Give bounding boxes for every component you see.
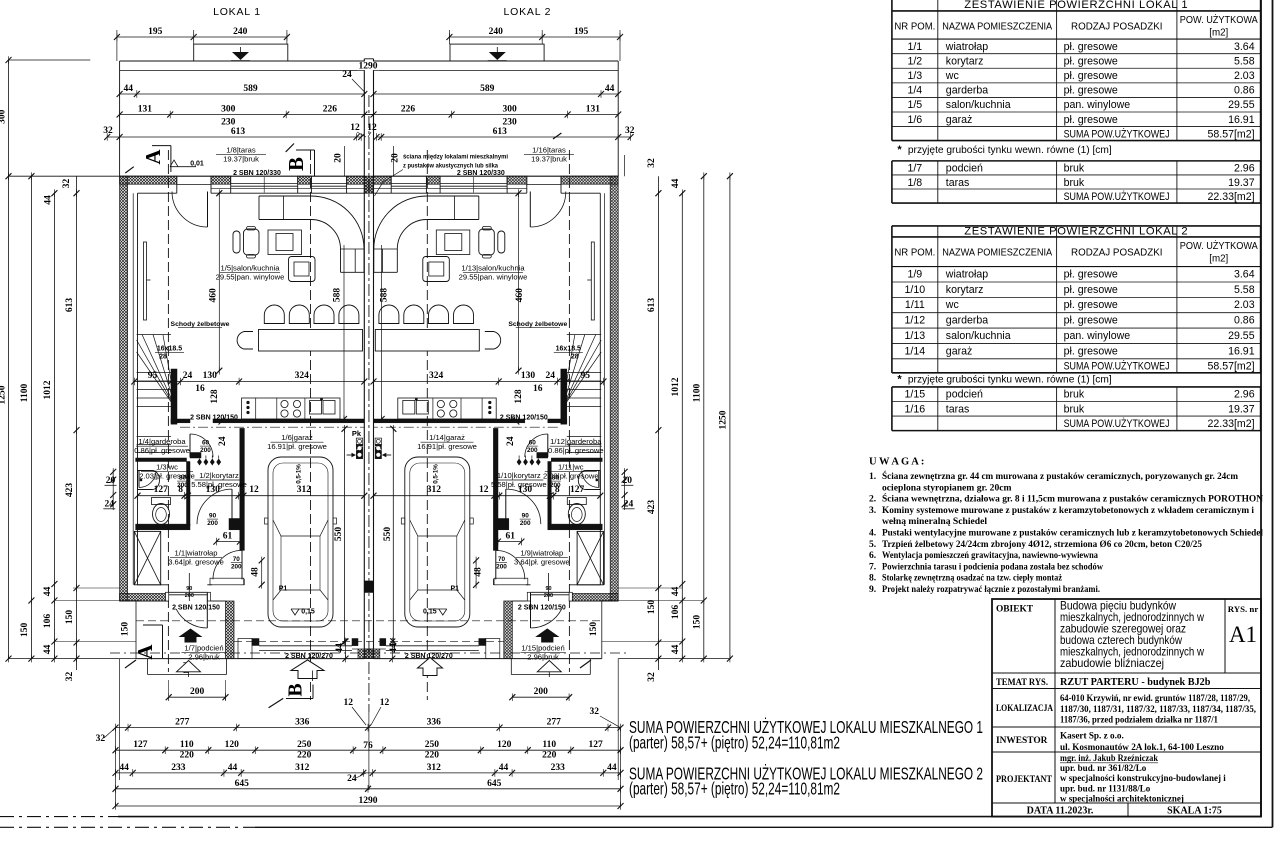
svg-text:2 SBN 120/150: 2 SBN 120/150 [500, 414, 548, 421]
svg-text:44: 44 [123, 84, 133, 94]
svg-text:24: 24 [342, 70, 352, 80]
interior wall under kitchen (salon/garage divider) [171, 419, 190, 423]
svg-text:SUMA POW.UŻYTKOWEJ: SUMA POW.UŻYTKOWEJ [1064, 417, 1170, 430]
svg-text:150: 150 [120, 622, 130, 637]
svg-text:32: 32 [647, 672, 657, 682]
party wall [363, 59, 365, 659]
top exterior wall hatch segments [120, 176, 177, 184]
svg-text:B: B [285, 683, 307, 696]
level flag 0,01 [170, 160, 178, 167]
svg-text:1/14: 1/14 [905, 345, 926, 357]
svg-text:312: 312 [297, 485, 312, 495]
svg-text:19.37: 19.37 [1228, 403, 1255, 415]
hollow arrow unit2 garage [418, 658, 443, 676]
svg-text:220: 220 [542, 751, 557, 761]
svg-text:korytarz: korytarz [946, 55, 984, 67]
svg-text:2.96|bruk: 2.96|bruk [527, 653, 559, 662]
svg-text:pan. winylowe: pan. winylowe [1064, 330, 1131, 342]
hollow entry arrow below left porch [177, 661, 201, 672]
svg-text:8.: 8. [869, 573, 876, 584]
svg-text:zabudowie bliźniaczej: zabudowie bliźniaczej [1060, 657, 1164, 670]
svg-text:120: 120 [497, 740, 512, 750]
svg-text:1/15: 1/15 [905, 389, 926, 401]
toilet [152, 498, 171, 505]
svg-text:LOKALIZACJA: LOKALIZACJA [996, 704, 1053, 714]
svg-text:wiatrołap: wiatrołap [945, 41, 989, 53]
svg-text:1/15|podcień: 1/15|podcień [521, 644, 564, 653]
svg-text:1/4|garderoba: 1/4|garderoba [138, 437, 186, 446]
svg-text:613: 613 [65, 298, 75, 313]
svg-text:220: 220 [297, 751, 312, 761]
svg-text:pł. gresowe: pł. gresowe [1064, 315, 1118, 327]
interior dimension chains [134, 381, 364, 383]
svg-text:131: 131 [138, 105, 153, 115]
svg-text:1/1|wiatrołap: 1/1|wiatrołap [175, 549, 218, 558]
svg-text:bruk: bruk [1064, 389, 1085, 401]
svg-text:130: 130 [518, 485, 533, 495]
bottom chain 44/233/44/312 [116, 772, 621, 774]
svg-text:230: 230 [502, 118, 517, 128]
svg-text:2.96|bruk: 2.96|bruk [188, 653, 220, 662]
svg-text:28: 28 [159, 354, 167, 361]
svg-text:RODZAJ POSADZKI: RODZAJ POSADZKI [1071, 247, 1162, 258]
svg-text:613: 613 [493, 127, 508, 137]
svg-text:pł. gresowe: pł. gresowe [1064, 41, 1118, 53]
svg-text:29.55: 29.55 [1228, 330, 1255, 342]
svg-text:wc: wc [945, 299, 960, 311]
svg-text:460: 460 [209, 288, 219, 303]
svg-text:1/11: 1/11 [905, 299, 925, 311]
svg-text:salon/kuchnia: salon/kuchnia [946, 99, 1011, 111]
svg-text:64-010 Krzywiń, nr ewid. grunt: 64-010 Krzywiń, nr ewid. gruntów 1187/28… [1060, 693, 1250, 703]
svg-text:korytarz: korytarz [946, 284, 984, 296]
garage front wall [238, 639, 252, 659]
svg-text:1187/30, 1187/31, 1187/32, 118: 1187/30, 1187/31, 1187/32, 1187/33, 1187… [1060, 704, 1256, 714]
svg-text:pł. gresowe: pł. gresowe [1064, 114, 1118, 126]
svg-text:80: 80 [552, 475, 560, 482]
svg-text:44: 44 [605, 84, 615, 94]
svg-text:32: 32 [625, 126, 635, 136]
coffee table [268, 230, 302, 255]
svg-text:16: 16 [195, 384, 205, 394]
svg-text:4.: 4. [869, 528, 876, 539]
top chain 195/240 [117, 36, 287, 38]
floor plan: lokal 2 graphics (mirror of lokal 1) [364, 44, 618, 712]
svg-text:pł. gresowe: pł. gresowe [1064, 70, 1118, 82]
small connector lines bottom left [54, 600, 140, 602]
porch step outline right [589, 659, 591, 675]
svg-text:0,5-1%: 0,5-1% [432, 464, 439, 484]
svg-text:bruk: bruk [1064, 163, 1085, 175]
svg-text:277: 277 [547, 718, 562, 728]
svg-text:Pk: Pk [352, 429, 362, 438]
svg-text:32: 32 [65, 672, 75, 682]
svg-text:240: 240 [233, 27, 248, 37]
svg-text:324: 324 [295, 371, 310, 381]
svg-text:58.57[m2]: 58.57[m2] [1207, 128, 1254, 140]
party wall axis (dash-dot) [368, 95, 370, 712]
partition wc / wiatrołap [136, 524, 190, 530]
svg-text:z pustaków akustycznych lub si: z pustaków akustycznych lub silka [403, 163, 498, 170]
svg-text:250: 250 [425, 740, 440, 750]
svg-text:P1: P1 [279, 586, 288, 593]
svg-text:2 SBN 120/330: 2 SBN 120/330 [233, 170, 281, 177]
svg-text:44: 44 [499, 763, 509, 773]
PK chimney blocks on party wall [356, 438, 362, 444]
svg-text:106: 106 [43, 614, 53, 629]
hollow entry arrow below right porch [537, 661, 561, 672]
svg-text:588: 588 [380, 288, 390, 303]
svg-text:2.03: 2.03 [1234, 70, 1255, 82]
svg-text:24: 24 [506, 436, 516, 446]
svg-text:80: 80 [179, 475, 187, 482]
svg-text:RZUT PARTERU - budynek BJ2b: RZUT PARTERU - budynek BJ2b [1060, 677, 1211, 688]
partition garderoba/wc [136, 458, 187, 462]
svg-text:240: 240 [489, 27, 504, 37]
svg-text:12: 12 [343, 698, 353, 708]
kitchen sink [310, 401, 322, 415]
svg-text:200: 200 [231, 563, 242, 570]
svg-text:1/2|korytarz: 1/2|korytarz [199, 471, 239, 480]
vent arrow [347, 454, 352, 456]
svg-text:29.55|pan. winylowe: 29.55|pan. winylowe [216, 273, 285, 282]
left chain 613/423/150/32 [76, 176, 78, 670]
svg-text:NAZWA POMIESZCZENIA: NAZWA POMIESZCZENIA [942, 247, 1052, 258]
svg-text:podcień: podcień [946, 389, 983, 401]
svg-text:1/6|garaż: 1/6|garaż [281, 433, 313, 442]
roof dormer / chimney box over terrace [194, 44, 288, 61]
svg-text:NAZWA POMIESZCZENIA: NAZWA POMIESZCZENIA [942, 21, 1052, 32]
svg-text:0,15: 0,15 [423, 609, 437, 616]
wc door [139, 471, 156, 488]
section mark B bottom (hollow arrow) [291, 660, 324, 679]
black block on party wall at garage rear [365, 581, 374, 592]
svg-text:127: 127 [154, 485, 169, 495]
svg-text:200: 200 [200, 447, 211, 454]
svg-text:garaż: garaż [946, 114, 973, 126]
svg-text:220: 220 [180, 751, 195, 761]
svg-text:pan. winylowe: pan. winylowe [1064, 99, 1131, 111]
svg-text:106: 106 [671, 605, 681, 620]
garage door sill [259, 645, 352, 647]
svg-text:A: A [141, 149, 165, 165]
svg-text:61: 61 [506, 532, 516, 542]
svg-text:2 SBN 120/150: 2 SBN 120/150 [172, 605, 220, 612]
svg-text:salon/kuchnia: salon/kuchnia [946, 330, 1011, 342]
partition korytarz / wiatrołap corner [229, 519, 240, 530]
under-stair void (X box) [134, 531, 160, 584]
sheet outer frame right border [1272, 0, 1274, 827]
svg-text:16: 16 [533, 384, 543, 394]
svg-text:1/5|salon/kuchnia: 1/5|salon/kuchnia [221, 264, 281, 273]
svg-text:1/6: 1/6 [907, 114, 922, 126]
svg-text:0.86: 0.86 [1234, 85, 1255, 97]
svg-text:60: 60 [529, 440, 537, 447]
right chain 1100/150 [703, 176, 705, 658]
svg-text:460: 460 [515, 288, 525, 303]
top chain 32/613/12 [107, 136, 361, 138]
svg-text:PROJEKTANT: PROJEKTANT [996, 775, 1053, 785]
terrace outline above unit [120, 60, 365, 62]
svg-text:5.58: 5.58 [1234, 55, 1255, 67]
connector lines bottom right [600, 600, 704, 602]
svg-text:24: 24 [546, 371, 556, 381]
svg-text:200: 200 [527, 447, 538, 454]
svg-text:3.64|pł. gresowe: 3.64|pł. gresowe [514, 558, 570, 567]
svg-text:przyjęte grubości tynku wew: przyjęte grubości tynku wewn. równe (1) … [908, 145, 1112, 156]
svg-text:2.96: 2.96 [1234, 163, 1255, 175]
bottom chain 645/645 [116, 788, 621, 790]
svg-text:28: 28 [571, 354, 579, 361]
svg-text:NR POM.: NR POM. [894, 247, 935, 258]
svg-text:550: 550 [334, 527, 344, 542]
svg-text:200: 200 [177, 482, 188, 489]
svg-text:12: 12 [367, 123, 377, 133]
left chain 1012/44/106/44 [53, 193, 55, 658]
svg-text:613: 613 [231, 127, 246, 137]
interior dimension chains [374, 381, 604, 383]
svg-text:70: 70 [498, 556, 506, 563]
svg-text:16.91: 16.91 [1228, 345, 1255, 357]
svg-text:2.96: 2.96 [1234, 389, 1255, 401]
svg-text:220: 220 [425, 751, 440, 761]
svg-text:90: 90 [209, 513, 217, 520]
svg-text:SUMA POW.UŻYTKOWEJ: SUMA POW.UŻYTKOWEJ [1064, 127, 1170, 140]
svg-text:ul. Kosmonautów 2A lok.1, 64-1: ul. Kosmonautów 2A lok.1, 64-100 Leszno [1060, 742, 1224, 752]
svg-text:300: 300 [221, 105, 236, 115]
svg-text:Kominy systemowe murowane z pu: Kominy systemowe murowane z pustaków z k… [882, 505, 1254, 516]
svg-text:Powierzchnia tarasu i podcieni: Powierzchnia tarasu i podcienia podana z… [882, 561, 1103, 572]
dashed driveway lines at garages [136, 620, 602, 622]
dining end chair [237, 332, 253, 350]
svg-text:Ściana zewnętrzna gr. 44 cm mu: Ściana zewnętrzna gr. 44 cm murowana z p… [882, 470, 1238, 482]
svg-text:LOKAL 1: LOKAL 1 [213, 6, 261, 18]
sheet inner frame right border [1260, 0, 1262, 817]
wiatrołap-garage door [213, 550, 242, 579]
south edge extension to right chain [618, 658, 731, 660]
svg-text:0,15: 0,15 [301, 609, 315, 616]
svg-text:*: * [897, 373, 902, 385]
svg-text:2 SBN 120/150: 2 SBN 120/150 [518, 605, 566, 612]
svg-text:150: 150 [589, 622, 599, 637]
svg-text:127: 127 [133, 740, 148, 750]
svg-text:1/13: 1/13 [905, 330, 926, 342]
svg-text:5.58: 5.58 [1234, 284, 1255, 296]
svg-text:Kasert Sp. z o.o.: Kasert Sp. z o.o. [1060, 731, 1124, 741]
property / frame bottom line 2 [0, 826, 255, 828]
entrance arrow right porch [535, 629, 559, 643]
svg-text:1/1: 1/1 [907, 41, 922, 53]
svg-text:20: 20 [106, 476, 116, 486]
svg-text:200: 200 [534, 687, 549, 697]
entrance arrow (podcień) [179, 629, 203, 643]
svg-text:233: 233 [171, 763, 186, 773]
top wall inner face [138, 192, 177, 194]
svg-text:bruk: bruk [1064, 177, 1085, 189]
svg-text:22.33[m2]: 22.33[m2] [1207, 191, 1254, 203]
svg-text:1/8: 1/8 [907, 177, 922, 189]
svg-text:95: 95 [581, 371, 591, 381]
svg-text:Trzpień żelbetowy 24/24cm zbro: Trzpień żelbetowy 24/24cm zbrojony 4Ø12,… [882, 539, 1202, 550]
svg-text:2 SBN 120/330: 2 SBN 120/330 [457, 170, 505, 177]
svg-text:1/2: 1/2 [907, 55, 922, 67]
svg-text:226: 226 [323, 105, 338, 115]
svg-text:16.91|pł. gresowe: 16.91|pł. gresowe [267, 442, 327, 451]
svg-text:wiatrołap: wiatrołap [945, 268, 989, 280]
svg-text:3.64|pł. gresowe: 3.64|pł. gresowe [168, 558, 224, 567]
TV on left wall [144, 242, 147, 320]
svg-text:2.03|pł. gresowe: 2.03|pł. gresowe [139, 472, 195, 481]
garderoba door [190, 434, 213, 457]
svg-text:2 SBN 120/270: 2 SBN 120/270 [285, 653, 333, 660]
entry door arc into porch [176, 609, 207, 628]
svg-text:195: 195 [574, 27, 589, 37]
svg-text:32: 32 [62, 179, 72, 189]
right chain 1250 [729, 176, 731, 658]
svg-text:NR POM.: NR POM. [894, 21, 935, 32]
svg-text:120: 120 [225, 740, 240, 750]
svg-text:312: 312 [427, 485, 442, 495]
svg-text:645: 645 [235, 779, 250, 789]
terrace entry door to salon [172, 192, 208, 228]
extension verticals bottom [115, 728, 117, 806]
svg-text:1/7: 1/7 [907, 163, 922, 175]
svg-text:200: 200 [190, 687, 205, 697]
svg-text:423: 423 [65, 483, 75, 498]
svg-text:(parter) 58,57+ (piętro) 52,24: (parter) 58,57+ (piętro) 52,24=110,81m2 [629, 733, 840, 753]
svg-text:230: 230 [221, 118, 236, 128]
svg-text:60: 60 [202, 440, 210, 447]
section line A-A (dashed) [167, 150, 169, 672]
bottom chain 200 (podcień) right [512, 696, 569, 698]
svg-text:wc: wc [945, 70, 960, 82]
svg-text:3.: 3. [869, 505, 876, 516]
svg-text:taras: taras [946, 403, 970, 415]
svg-text:w specjalności konstrukcyjno-b: w specjalności konstrukcyjno-budowlanej … [1060, 773, 1226, 783]
svg-text:U W A G A :: U W A G A : [869, 457, 924, 468]
svg-text:1/16|taras: 1/16|taras [532, 146, 566, 155]
svg-text:277: 277 [175, 718, 190, 728]
svg-text:24: 24 [624, 500, 634, 510]
svg-text:1187/36, przed podziałem dział: 1187/36, przed podziałem działka nr 1187… [1060, 715, 1218, 725]
porch outline [135, 601, 137, 659]
svg-text:233: 233 [551, 763, 566, 773]
cooktop burners [281, 400, 288, 407]
wiatrołap south-east wall piece [210, 578, 244, 585]
small 32 tick line top right [623, 155, 625, 176]
ground line at left of building top [9, 175, 120, 177]
svg-text:P1: P1 [451, 586, 460, 593]
svg-text:24: 24 [183, 371, 193, 381]
bottom chain 1290 [116, 805, 621, 807]
svg-text:SUMA POW.UŻYTKOWEJ: SUMA POW.UŻYTKOWEJ [1064, 190, 1170, 203]
svg-text:61: 61 [223, 532, 233, 542]
svg-text:POW. UŻYTKOWA: POW. UŻYTKOWA [1180, 241, 1258, 252]
svg-text:1012: 1012 [43, 380, 53, 399]
svg-text:19.37: 19.37 [1228, 177, 1255, 189]
svg-text:ZESTAWIENIE POWIERZCHNI LOKA: ZESTAWIENIE POWIERZCHNI LOKAL 1 [964, 0, 1188, 11]
svg-text:44: 44 [228, 763, 238, 773]
svg-text:95: 95 [148, 371, 158, 381]
svg-text:16.91: 16.91 [1228, 114, 1255, 126]
title block frame [992, 599, 1261, 817]
svg-text:1012: 1012 [671, 377, 681, 396]
svg-text:324: 324 [429, 371, 444, 381]
svg-text:1/3|wc: 1/3|wc [156, 463, 178, 472]
svg-text:bruk: bruk [1064, 403, 1085, 415]
svg-text:SUMA POW.UŻYTKOWEJ: SUMA POW.UŻYTKOWEJ [1064, 360, 1170, 373]
svg-text:Schody żelbetowe: Schody żelbetowe [171, 321, 230, 328]
svg-text:5.: 5. [869, 539, 876, 550]
svg-text:Ściana wewnętrzna, działowa gr: Ściana wewnętrzna, działowa gr. 8 i 11,5… [882, 493, 1263, 505]
svg-text:44: 44 [671, 645, 681, 655]
svg-text:645: 645 [487, 779, 502, 789]
lower stair treads (garderoba under stairs) [137, 436, 171, 438]
svg-text:550: 550 [383, 527, 393, 542]
svg-text:12: 12 [350, 123, 360, 133]
svg-text:250: 250 [297, 740, 312, 750]
svg-text:1100: 1100 [693, 384, 703, 403]
svg-text:128: 128 [210, 389, 220, 404]
svg-text:24: 24 [218, 436, 228, 446]
property / frame bottom line 1 [0, 816, 118, 818]
kitchen counter [242, 398, 340, 419]
svg-text:0.86: 0.86 [1234, 315, 1255, 327]
svg-text:1290: 1290 [359, 796, 378, 806]
svg-text:POW. UŻYTKOWA: POW. UŻYTKOWA [1180, 15, 1258, 26]
section slash bottom right [580, 660, 591, 668]
svg-text:200: 200 [550, 482, 561, 489]
svg-text:DATA 11.2023r.: DATA 11.2023r. [1027, 805, 1094, 816]
svg-text:1/4: 1/4 [907, 85, 922, 97]
svg-text:58.57[m2]: 58.57[m2] [1207, 361, 1254, 373]
svg-text:29.55: 29.55 [1228, 99, 1255, 111]
svg-text:32: 32 [647, 158, 657, 168]
svg-text:1.: 1. [869, 471, 876, 482]
svg-text:[m2]: [m2] [1209, 27, 1228, 38]
svg-text:32: 32 [590, 707, 600, 717]
porch east wall [226, 601, 235, 659]
svg-text:44: 44 [43, 645, 53, 655]
garage level mark 0,15 [291, 609, 299, 615]
svg-text:1/9|wiatrołap: 1/9|wiatrołap [520, 549, 563, 558]
svg-text:pł. gresowe: pł. gresowe [1064, 85, 1118, 97]
svg-text:130: 130 [521, 371, 536, 381]
bottom chain 277/336 [116, 727, 621, 729]
svg-text:*: * [897, 144, 902, 156]
svg-text:336: 336 [295, 718, 310, 728]
svg-text:Stolarkę zewnętrzną osadzać na: Stolarkę zewnętrzną osadzać na tzw. ciep… [882, 573, 1063, 584]
svg-text:48: 48 [473, 567, 483, 577]
svg-text:TEMAT RYS.: TEMAT RYS. [996, 678, 1048, 688]
table title band top border [892, 225, 1261, 227]
svg-text:300: 300 [502, 105, 517, 115]
svg-text:pł. gresowe: pł. gresowe [1064, 55, 1118, 67]
svg-text:1/8|taras: 1/8|taras [226, 146, 256, 155]
svg-text:19.37|bruk: 19.37|bruk [531, 155, 567, 164]
svg-text:1100: 1100 [20, 384, 30, 403]
svg-text:garderba: garderba [946, 315, 989, 327]
svg-text:12: 12 [380, 698, 390, 708]
svg-text:127: 127 [589, 740, 604, 750]
svg-text:16x18.5: 16x18.5 [157, 346, 182, 353]
svg-text:1/11|wc: 1/11|wc [558, 463, 584, 472]
svg-text:44: 44 [389, 643, 399, 653]
building south edge line [136, 658, 364, 660]
svg-text:2.: 2. [869, 494, 876, 505]
top chain 131/300/226 [120, 114, 374, 116]
south wall of wiatrołap with entry door [120, 594, 166, 602]
